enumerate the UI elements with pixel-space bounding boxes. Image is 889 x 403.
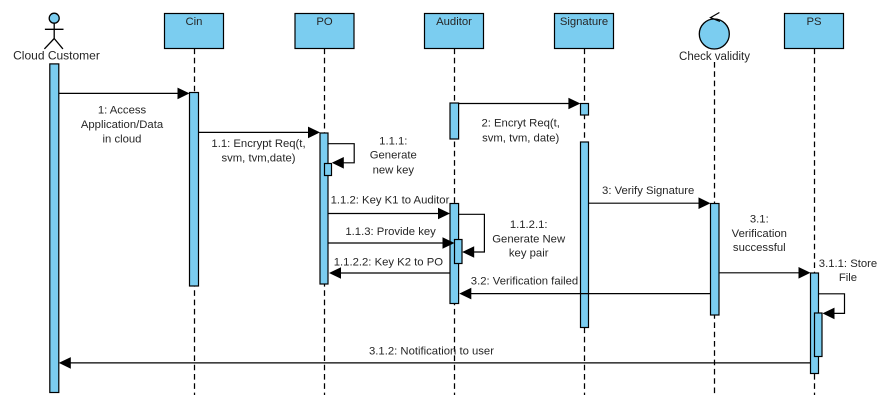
- activation bar Check validity: [711, 204, 720, 316]
- svg-text:3.2: Verification failed: 3.2: Verification failed: [471, 276, 578, 288]
- control object Check validity: [699, 13, 729, 50]
- svg-text:1.1.3: Provide key: 1.1.3: Provide key: [345, 226, 436, 238]
- svg-text:key pair: key pair: [509, 248, 549, 260]
- activation bar Auditor first: [450, 103, 459, 139]
- activation bar PS nested: [815, 313, 823, 357]
- actor Cloud Customer: [44, 13, 63, 49]
- lifeline PS dashed: [814, 49, 816, 396]
- activation bar PS main: [811, 273, 819, 374]
- lifeline head box PO: [295, 14, 354, 49]
- svg-text:1: Access: 1: Access: [98, 105, 147, 117]
- lifeline Auditor dashed: [454, 49, 456, 396]
- svg-text:1.1.2: Key K1 to Auditor: 1.1.2: Key K1 to Auditor: [331, 195, 450, 207]
- activation bar Cin: [190, 93, 199, 287]
- message 3.1 Verification successful: [719, 214, 811, 279]
- message 1.1.2 Key K1 to Auditor: [328, 195, 450, 220]
- activation bar PO: [320, 133, 328, 284]
- svg-text:3.1.1: Store: 3.1.1: Store: [819, 258, 877, 270]
- svg-text:successful: successful: [733, 242, 786, 254]
- svg-text:3.1:: 3.1:: [750, 214, 769, 226]
- svg-text:Cin: Cin: [186, 16, 203, 28]
- lifeline head box Auditor: [425, 14, 484, 49]
- svg-text:Application/Data: Application/Data: [81, 119, 164, 131]
- svg-text:File: File: [839, 272, 857, 284]
- svg-text:Check validity: Check validity: [679, 51, 750, 63]
- svg-text:1.1.2.1:: 1.1.2.1:: [510, 219, 548, 231]
- lifeline Signature dashed: [584, 49, 586, 396]
- lifeline Check validity dashed: [714, 62, 716, 395]
- svg-text:in cloud: in cloud: [103, 133, 142, 145]
- svg-text:new key: new key: [373, 164, 415, 176]
- message 1.1.2.1 Generate New key pair (self): [459, 214, 566, 259]
- svg-text:Generate New: Generate New: [492, 233, 566, 245]
- svg-text:PO: PO: [316, 16, 333, 28]
- message 3.2 Verification failed: [459, 276, 710, 300]
- message 3.1.2 Notification to user: [59, 346, 811, 369]
- lifeline Cin dashed: [194, 49, 196, 396]
- svg-text:2: Encryt Req(t,: 2: Encryt Req(t,: [481, 118, 559, 130]
- svg-text:PS: PS: [806, 16, 822, 28]
- message 1.1.2.2 Key K2 to PO: [329, 256, 450, 279]
- svg-text:Verification: Verification: [732, 228, 787, 240]
- message 1.1 Encrypt Req: [199, 127, 321, 165]
- svg-text:svm, tvm, date): svm, tvm, date): [482, 132, 559, 144]
- message 1.1.1 Generate new key (self): [328, 135, 417, 176]
- activation bar Auditor main: [450, 204, 459, 304]
- message 3 Verify Signature: [589, 185, 711, 209]
- lifeline head box Cin: [165, 14, 224, 49]
- activation bar Signature main: [581, 142, 589, 328]
- activation bar Signature small: [581, 104, 589, 116]
- svg-text:1.1.2.2: Key K2 to PO: 1.1.2.2: Key K2 to PO: [334, 256, 443, 268]
- lifeline head box PS: [785, 14, 844, 49]
- lifeline PO dashed: [324, 49, 326, 396]
- svg-text:Auditor: Auditor: [436, 16, 472, 28]
- activation bar Auditor nested: [455, 240, 463, 264]
- svg-text:Signature: Signature: [560, 16, 608, 28]
- activation bar Cloud Customer: [50, 64, 59, 393]
- lifeline head box Signature: [555, 14, 614, 49]
- svg-text:3: Verify Signature: 3: Verify Signature: [602, 185, 694, 197]
- message 1 Access Application/Data in cloud: [59, 88, 190, 146]
- svg-text:Generate: Generate: [370, 150, 417, 162]
- svg-text:Cloud Customer: Cloud Customer: [13, 49, 100, 63]
- svg-text:3.1.2: Notification to user: 3.1.2: Notification to user: [369, 346, 494, 358]
- message 1.1.3 Provide key: [328, 226, 455, 249]
- svg-text:svm, tvm,date): svm, tvm,date): [221, 153, 295, 165]
- svg-text:1.1: Encrypt Req(t,: 1.1: Encrypt Req(t,: [211, 138, 305, 150]
- message 3.1.1 Store File (self): [819, 258, 878, 319]
- message 2 Encryt Req: [459, 98, 581, 145]
- svg-text:1.1.1:: 1.1.1:: [379, 135, 407, 147]
- activation bar PO nested: [325, 164, 332, 176]
